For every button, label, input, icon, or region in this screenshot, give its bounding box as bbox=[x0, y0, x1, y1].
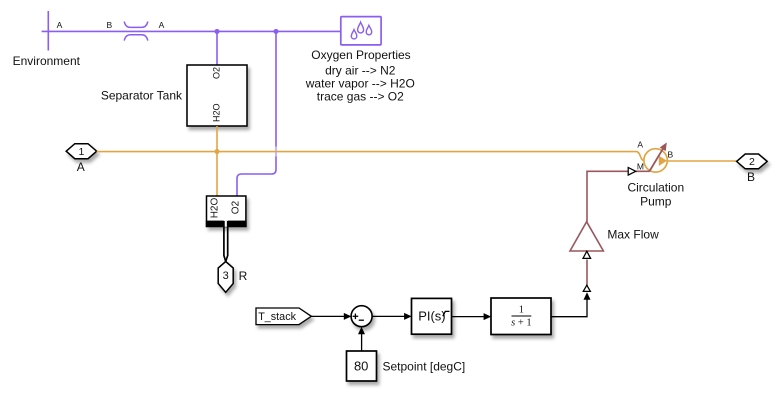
svg-text:B: B bbox=[667, 150, 673, 160]
separator tank block bbox=[187, 65, 247, 126]
svg-text:water vapor --> H2O: water vapor --> H2O bbox=[305, 77, 415, 91]
svg-text:dry air --> N2: dry air --> N2 bbox=[325, 64, 396, 78]
wire: top moist-air line bbox=[42, 30, 342, 32]
wire: T_stack to sum bbox=[311, 315, 345, 317]
sum minus sign bbox=[359, 319, 364, 321]
wire: sum to PI(s) bbox=[372, 315, 406, 317]
svg-text:Pump: Pump bbox=[640, 194, 672, 208]
svg-text:O2: O2 bbox=[231, 200, 242, 214]
svg-text:Separator Tank: Separator Tank bbox=[101, 88, 183, 102]
svg-text:s + 1: s + 1 bbox=[511, 317, 532, 328]
wire: main thermal liquid line port1 to pump A bbox=[97, 152, 644, 161]
wire: pump B to port 2 bbox=[667, 160, 736, 162]
svg-text:trace gas --> O2: trace gas --> O2 bbox=[317, 90, 404, 104]
svg-text:2: 2 bbox=[749, 156, 755, 168]
svg-text:1: 1 bbox=[78, 146, 84, 158]
pump impeller arrow bbox=[649, 149, 663, 171]
wire: tank H2O down through junction to membrane bbox=[216, 126, 218, 196]
PID controller block PI(s) bbox=[412, 298, 452, 334]
svg-text:O2: O2 bbox=[211, 67, 221, 79]
svg-text:PI(s): PI(s) bbox=[418, 309, 445, 324]
svg-text:M: M bbox=[637, 162, 644, 172]
svg-text:H2O: H2O bbox=[211, 103, 221, 122]
sum block bbox=[351, 306, 372, 327]
svg-text:H2O: H2O bbox=[210, 198, 221, 219]
sum plus sign bbox=[353, 314, 364, 321]
wire: PI(s) to transfer fcn bbox=[452, 316, 485, 318]
oxygen properties block bbox=[341, 17, 381, 45]
svg-text:A: A bbox=[159, 20, 165, 30]
wire: transfer fcn up to converter bbox=[551, 299, 587, 317]
svg-text:Oxygen Properties: Oxygen Properties bbox=[311, 48, 410, 62]
wire: to separator tank top port bbox=[216, 31, 218, 65]
fraction bar bbox=[512, 315, 532, 317]
svg-text:A: A bbox=[77, 160, 85, 174]
circulation pump circle bbox=[644, 149, 667, 172]
local restriction symbol bbox=[124, 22, 148, 41]
svg-text:A: A bbox=[57, 20, 63, 30]
svg-text:80: 80 bbox=[354, 359, 368, 374]
svg-text:T_stack: T_stack bbox=[258, 311, 296, 323]
wire crossing fade bbox=[275, 147, 278, 157]
svg-text:1: 1 bbox=[519, 305, 524, 316]
environment block (moist air reservoir cross) bbox=[47, 11, 49, 51]
svg-text:R: R bbox=[239, 269, 248, 283]
transfer fcn block 1/(s+1) bbox=[491, 298, 551, 335]
constant block 80 bbox=[347, 351, 377, 381]
junction (tank H2O / main line) bbox=[215, 149, 220, 154]
physical signal source arrow bbox=[583, 285, 590, 291]
svg-text:A: A bbox=[637, 139, 643, 149]
wire: max flow to pump M bbox=[587, 171, 649, 221]
droplet icons bbox=[351, 22, 371, 39]
membrane block black base bar bbox=[206, 221, 247, 227]
wire: long moist-air branch to membrane block O2 bbox=[237, 31, 276, 196]
pump outlet triangle bbox=[659, 156, 667, 166]
svg-text:3: 3 bbox=[223, 270, 229, 282]
svg-text:Environment: Environment bbox=[13, 54, 81, 68]
wire: constant to sum bbox=[361, 334, 363, 352]
physical signal arrow into M bbox=[628, 168, 636, 176]
svg-text:Circulation: Circulation bbox=[627, 180, 684, 194]
svg-text:B: B bbox=[106, 20, 112, 30]
wire: physical signal from converter bbox=[586, 260, 588, 287]
svg-text:Max Flow: Max Flow bbox=[607, 227, 659, 241]
wire: double physical connection to port 3 bbox=[224, 221, 228, 262]
T_stack from tag bbox=[256, 308, 311, 325]
port 3 (R) pentagon bbox=[218, 262, 233, 293]
membrane humidifier block (H2O / O2) bbox=[207, 196, 246, 227]
port 2 (B) hexagon bbox=[737, 154, 768, 169]
junction (separator O2 branch) bbox=[274, 29, 279, 34]
junction (tank O2 branch) bbox=[215, 29, 220, 34]
physical signal arrow into max flow bbox=[583, 251, 591, 258]
svg-text:Setpoint [degC]: Setpoint [degC] bbox=[383, 360, 466, 374]
max flow gain triangle bbox=[570, 222, 603, 251]
svg-text:B: B bbox=[747, 170, 755, 184]
port 1 (A) hexagon bbox=[66, 144, 97, 159]
saturation mark bbox=[443, 311, 450, 316]
